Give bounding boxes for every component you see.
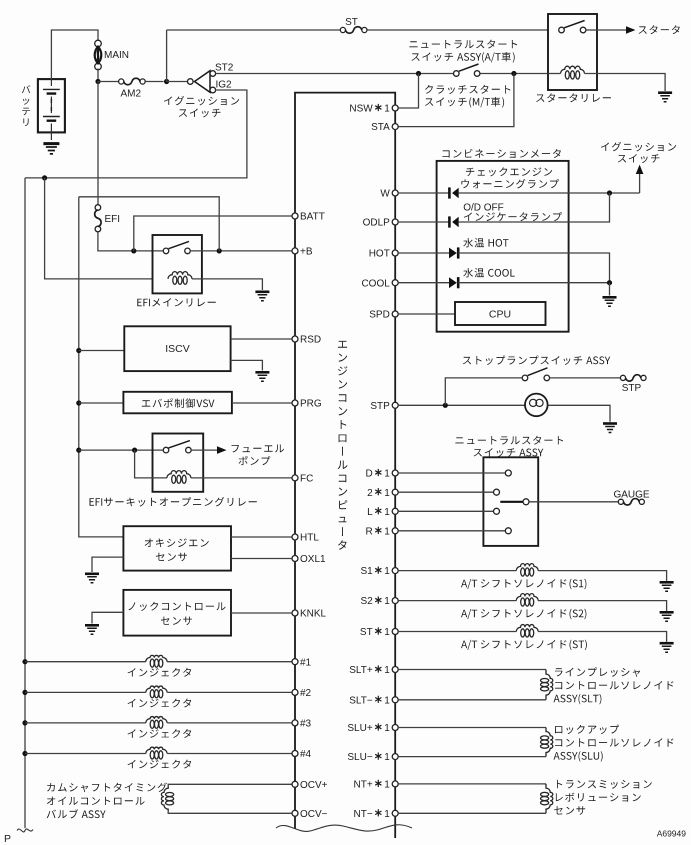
- svg-text:#2: #2: [300, 688, 312, 699]
- wire to opening relay: [79, 449, 164, 451]
- svg-text:HTL: HTL: [300, 533, 319, 544]
- label starter: [639, 25, 680, 34]
- svg-text:BATT: BATT: [300, 212, 325, 223]
- ECU terminal OXL1: [292, 556, 298, 562]
- wire センサ +: [398, 783, 546, 785]
- check engine warning lamp LED: [448, 187, 451, 198]
- svg-text:1: 1: [384, 488, 390, 499]
- fuse STP: [620, 375, 625, 380]
- EFI circuit opening relay switch: [163, 447, 169, 453]
- svg-text:AM2: AM2: [121, 89, 142, 100]
- svg-text:SLU−: SLU−: [347, 752, 372, 763]
- wire NSW branch: [398, 74, 418, 109]
- wire OCV-: [168, 811, 292, 813]
- ECU terminal NT+*1: [392, 781, 398, 787]
- wire O2 to OXL1: [231, 558, 292, 560]
- knock control sensor box: [123, 590, 231, 636]
- EFI main relay switch: [163, 248, 169, 254]
- svg-text:#3: #3: [300, 719, 312, 730]
- distribution rail (switched +B): [79, 197, 124, 537]
- wire 2*1: [398, 491, 493, 493]
- contact 2: [494, 489, 500, 495]
- wire knock sensor to ground: [92, 612, 123, 623]
- label water temp HOT: [463, 238, 508, 247]
- ground (ISCV): [255, 371, 269, 374]
- label EFI circuit opening relay: [90, 497, 257, 507]
- wire R*1: [398, 530, 505, 532]
- ground (battery): [43, 142, 59, 145]
- wire ISCV to RSD: [231, 338, 293, 340]
- wire ISCV to ground: [231, 360, 263, 370]
- junction rail/injector 4: [22, 751, 27, 756]
- junction rail/injector 2: [22, 690, 27, 695]
- wire shift solenoid (S2): [398, 600, 516, 602]
- wire relay switch to +B: [190, 250, 292, 252]
- ECU terminal NSW*1: [392, 105, 398, 111]
- contact R: [505, 528, 511, 534]
- wire battery+ to MAIN link: [51, 30, 98, 79]
- svg-text:STP: STP: [370, 401, 390, 412]
- wire ODLP to O/D OFF LED: [398, 221, 449, 223]
- ECU terminal STP: [392, 402, 398, 408]
- ECU bottom tear: [276, 825, 412, 832]
- label A/T shift solenoid (ST): [461, 640, 587, 650]
- label clutch start switch (M/T): [425, 85, 510, 94]
- wire センサ -: [398, 812, 546, 814]
- wire SPD to CPU: [398, 313, 455, 315]
- svg-text:2: 2: [367, 488, 373, 499]
- svg-text:1: 1: [384, 566, 390, 577]
- svg-text:CPU: CPU: [489, 309, 511, 321]
- label ASSY(SLT): [555, 667, 640, 677]
- wire ST2 line: [216, 73, 454, 75]
- ignition switch feed arrow: [639, 173, 641, 193]
- left rail (IG2 feed to injectors): [24, 178, 26, 828]
- junction rail/ISCV: [76, 348, 81, 353]
- ECU terminal ODLP: [392, 219, 398, 225]
- label battery (vertical): [22, 85, 31, 126]
- label fuel pump: [232, 445, 285, 453]
- wire ST rail (top) to ST fuse: [167, 29, 341, 31]
- label camshaft timing oil control valve ASSY: [47, 783, 167, 793]
- ECU terminal R*1: [392, 528, 398, 534]
- ECU terminal PRG: [292, 400, 298, 406]
- svg-text:ST: ST: [360, 627, 373, 638]
- svg-text:#4: #4: [300, 749, 312, 760]
- ground (shift solenoid (ST)): [660, 642, 674, 645]
- label ignition switch: [164, 96, 239, 106]
- starter relay coil: [548, 73, 561, 75]
- wire O2 sensor to ground: [92, 557, 123, 572]
- wire W LED to ignition riser: [459, 192, 640, 194]
- junction ST2/STA branch: [511, 71, 516, 76]
- wire ASSY(SLU) +: [398, 727, 546, 729]
- junction AM2/ST branch: [164, 79, 169, 84]
- wire HOT LED to COOL junction: [458, 253, 609, 283]
- svg-text:MAIN: MAIN: [104, 50, 129, 61]
- svg-text:OCV−: OCV−: [300, 809, 328, 820]
- svg-text:S1: S1: [360, 566, 373, 577]
- svg-text:COOL: COOL: [361, 278, 390, 289]
- junction rail/opening relay: [76, 448, 81, 453]
- A/T shift solenoid (S1) coil: [516, 564, 538, 571]
- junction rail/injector 1: [22, 659, 27, 664]
- svg-text:SLU+: SLU+: [347, 723, 372, 734]
- wire MAIN rail down to EFI link: [97, 82, 99, 205]
- svg-text:S2: S2: [360, 596, 373, 607]
- wire HOT to HOT LED: [398, 252, 449, 254]
- label injector 1: [128, 668, 192, 677]
- label neutral start switch ASSY (A/T): [409, 40, 517, 49]
- svg-text:NT−: NT−: [354, 809, 373, 820]
- svg-text:EFI: EFI: [105, 214, 121, 225]
- camshaft timing OCV coil: [161, 786, 168, 811]
- water temp COOL LED: [449, 277, 457, 288]
- ECU terminal ST*1: [392, 629, 398, 635]
- EFI circuit opening relay box: [153, 434, 204, 492]
- wire BATT branch: [134, 216, 292, 251]
- wire OCV+: [168, 784, 292, 786]
- injector 3 coil: [146, 717, 167, 723]
- battery: [38, 79, 65, 132]
- svg-text:ST: ST: [345, 17, 358, 28]
- wire solenoid (S1) to ground: [538, 571, 667, 581]
- junction W/ODLP: [607, 190, 612, 195]
- svg-text:1: 1: [384, 627, 390, 638]
- svg-text:PRG: PRG: [300, 399, 322, 410]
- ECU terminal SLU−*1: [392, 754, 398, 760]
- starter relay box: [548, 14, 597, 90]
- neutral start switch box: [483, 457, 538, 546]
- fusible link MAIN: [95, 40, 102, 47]
- ECU terminal #1: [292, 659, 298, 665]
- wire distribution riser: [79, 197, 219, 251]
- svg-text:P: P: [4, 833, 11, 845]
- svg-text:ODLP: ODLP: [363, 218, 391, 229]
- ECU terminal 2*1: [392, 489, 398, 495]
- junction opening relay coil branch: [132, 448, 137, 453]
- wire L*1: [398, 510, 493, 512]
- label knock control sensor: [128, 602, 225, 611]
- label evap control VSV: [142, 398, 215, 408]
- wire switch to STP fuse: [550, 377, 621, 379]
- wire VSV to PRG: [232, 402, 292, 404]
- svg-text:NSW: NSW: [349, 104, 373, 115]
- wire ASSY(SLT) +: [398, 669, 546, 671]
- svg-text:1: 1: [384, 469, 390, 480]
- wire EFI main relay coil to ground: [192, 279, 262, 290]
- wire ASSY(SLT) -: [398, 699, 546, 701]
- label starter relay: [536, 93, 611, 102]
- ECU terminal SLT−*1: [392, 697, 398, 703]
- label water temp COOL: [463, 268, 514, 277]
- junction rail/injector 3: [22, 720, 27, 725]
- fusible link EFI: [95, 205, 101, 211]
- junction HOT/COOL ground: [607, 280, 612, 285]
- wire starter output arrow: [597, 29, 629, 31]
- A/T shift solenoid (S2) coil: [516, 594, 538, 601]
- ECU terminal L*1: [392, 508, 398, 514]
- wire common to GAUGE fuse: [529, 501, 618, 503]
- label センサ: [557, 780, 652, 789]
- wire to ISCV: [79, 350, 125, 352]
- water temp HOT LED: [449, 248, 457, 259]
- svg-text:#1: #1: [300, 657, 312, 668]
- ignition switch: [188, 79, 194, 85]
- EFI main relay coil: [168, 272, 192, 279]
- wire AM2 fuse to junction: [145, 81, 163, 83]
- ECU terminal OCV+: [292, 781, 298, 787]
- junction IG2/relay coil feed: [42, 175, 47, 180]
- svg-text:SPD: SPD: [369, 310, 390, 321]
- svg-text:O/D OFF: O/D OFF: [463, 203, 504, 214]
- injector 2 coil: [146, 686, 167, 692]
- wire injector 1 to #1: [167, 661, 292, 663]
- svg-text:RSD: RSD: [300, 335, 321, 346]
- junction ST2/NSW branch: [416, 71, 421, 76]
- junction STP/switch branch: [443, 403, 448, 408]
- svg-text:R: R: [365, 526, 372, 537]
- ECU terminal D*1: [392, 470, 398, 476]
- svg-text:HOT: HOT: [369, 249, 390, 260]
- ECU terminal BATT: [292, 213, 298, 219]
- wire MAIN to AM2 rail: [97, 69, 99, 82]
- svg-text:1: 1: [384, 695, 390, 706]
- label stop lamp switch ASSY: [463, 356, 610, 365]
- ECU terminal S1*1: [392, 568, 398, 574]
- ECU terminal W: [392, 190, 398, 196]
- ECU (engine control computer) outline: [295, 93, 395, 838]
- clutch start switch (M/T): [454, 71, 460, 77]
- label injector 2: [128, 699, 192, 708]
- svg-text:GAUGE: GAUGE: [613, 489, 649, 500]
- ECU terminal KNKL: [292, 610, 298, 616]
- junction +B/BATT branch: [131, 248, 136, 253]
- label check engine warning lamp: [466, 167, 552, 176]
- svg-text:OCV+: OCV+: [300, 780, 328, 791]
- wire to ignition switch: [167, 81, 188, 83]
- svg-text:STP: STP: [622, 383, 642, 394]
- label A/T shift solenoid (S1): [461, 579, 586, 589]
- wire COOL to COOL LED: [398, 282, 449, 284]
- wire solenoid (ST) to ground: [538, 632, 667, 642]
- svg-text:1: 1: [384, 752, 390, 763]
- CPU box: [455, 302, 546, 325]
- ground (knock sensor): [85, 624, 99, 627]
- wire to injector 3: [25, 722, 146, 724]
- wire injector 4 to #4: [167, 753, 292, 755]
- contact D: [505, 470, 511, 476]
- wire to VSV: [79, 402, 124, 404]
- injector 1 coil: [146, 655, 167, 661]
- ECU terminal STA: [392, 124, 398, 130]
- solenoid ASSY(SLT) coil: [546, 670, 553, 700]
- ECU terminal OCV−: [292, 810, 298, 816]
- wire stop lamp to ground: [547, 405, 610, 421]
- ground (shift solenoid (S2)): [660, 611, 674, 614]
- ECU terminal FC: [292, 475, 298, 481]
- ECU terminal HTL: [292, 534, 298, 540]
- wire to AM2 fuse: [98, 81, 118, 83]
- injector 4 coil: [146, 747, 167, 753]
- svg-text:STA: STA: [371, 122, 390, 133]
- ECU terminal NT−*1: [392, 810, 398, 816]
- label A/T shift solenoid (S2): [461, 609, 586, 619]
- EFI main relay box: [153, 235, 202, 293]
- svg-text:ISCV: ISCV: [165, 343, 190, 355]
- svg-text:NT+: NT+: [354, 780, 373, 791]
- wire junction up to ST rail: [166, 30, 168, 82]
- selector common contact: [500, 501, 523, 503]
- A/T shift solenoid (ST) coil: [516, 625, 538, 632]
- svg-text:1: 1: [384, 104, 390, 115]
- svg-text:1: 1: [384, 723, 390, 734]
- svg-text:SLT+: SLT+: [349, 665, 373, 676]
- evap control VSV box: [123, 392, 231, 414]
- label engine control computer (vertical): [338, 341, 348, 550]
- stop lamp bulb: [525, 394, 548, 417]
- ISCV box: [124, 326, 230, 371]
- label oxygen sensor: [145, 538, 209, 547]
- svg-text:1: 1: [384, 665, 390, 676]
- svg-text:1: 1: [384, 780, 390, 791]
- wire STP to junction: [398, 404, 525, 406]
- junction +B/distribution branch: [217, 248, 222, 253]
- wire coil branch down: [135, 450, 167, 478]
- wire knock to KNKL: [231, 612, 292, 614]
- EFI circuit opening relay coil: [167, 471, 191, 478]
- svg-text:L: L: [367, 507, 373, 518]
- fuse GAUGE: [618, 499, 623, 504]
- wire IG2 to left rail: [25, 90, 247, 178]
- wire stop lamp switch branch: [445, 378, 522, 405]
- wire ASSY(SLU) -: [398, 756, 546, 758]
- fuse ST: [340, 27, 345, 32]
- svg-text:OXL1: OXL1: [300, 554, 326, 565]
- wire O2 to HTL: [231, 536, 292, 538]
- ground (shift solenoid (S1)): [660, 581, 674, 584]
- wire shift solenoid (ST): [398, 631, 516, 633]
- svg-text:1: 1: [384, 526, 390, 537]
- ground (starter relay): [658, 91, 672, 94]
- svg-text:1: 1: [384, 507, 390, 518]
- wire D*1: [398, 472, 505, 474]
- ECU terminal SLU+*1: [392, 725, 398, 731]
- wire W to warning lamp LED: [398, 192, 449, 194]
- fuse AM2: [119, 79, 124, 84]
- wire to injector 2: [25, 691, 146, 693]
- starter relay switch: [559, 27, 565, 33]
- svg-text:SLT−: SLT−: [349, 695, 373, 706]
- svg-text:1: 1: [384, 596, 390, 607]
- svg-text:+B: +B: [300, 247, 313, 258]
- solenoid センサ coil: [546, 784, 553, 813]
- left rail page tear: [17, 829, 33, 832]
- ECU terminal +B: [292, 248, 298, 254]
- ground (EFI main relay): [255, 290, 269, 293]
- label combination meter: [443, 149, 561, 158]
- ground (meter lamps): [603, 296, 617, 299]
- label injector 3: [128, 729, 192, 738]
- svg-text:1: 1: [384, 809, 390, 820]
- ECU terminal #2: [292, 689, 298, 695]
- wire ST fuse to starter relay: [367, 29, 548, 31]
- label EFI main relay: [137, 298, 216, 307]
- ECU terminal #4: [292, 751, 298, 757]
- ECU terminal SLT+*1: [392, 667, 398, 673]
- solenoid ASSY(SLU) coil: [546, 728, 553, 757]
- wire starter relay coil to ground: [585, 74, 666, 92]
- wire solenoid (S2) to ground: [538, 601, 667, 611]
- label ASSY(SLU): [555, 725, 619, 734]
- wire shift solenoid (S1): [398, 570, 516, 572]
- ground (stop lamp): [603, 422, 617, 425]
- svg-text:A69949: A69949: [657, 829, 687, 839]
- wire injector 3 to #3: [167, 722, 292, 724]
- contact L: [494, 508, 500, 514]
- wire EFI link to +B line: [98, 232, 163, 251]
- wire O/D LED to junction riser: [459, 193, 610, 222]
- svg-text:D: D: [365, 469, 372, 480]
- svg-text:KNKL: KNKL: [300, 609, 327, 620]
- label injector 4: [128, 760, 192, 769]
- O/D OFF indicator LED: [448, 216, 451, 227]
- junction MAIN/AM2: [95, 79, 100, 84]
- ECU terminal S2*1: [392, 598, 398, 604]
- wire relay coil feed: [45, 178, 153, 279]
- wire COOL LED to ground: [458, 282, 609, 284]
- combination meter box: [437, 161, 569, 332]
- svg-text:W: W: [380, 189, 390, 200]
- wire switch to fuel pump arrow: [191, 449, 217, 451]
- wire opening relay coil to FC: [191, 477, 292, 479]
- ECU terminal #3: [292, 720, 298, 726]
- stop lamp switch: [522, 375, 528, 381]
- wire to injector 4: [25, 753, 146, 755]
- oxygen sensor box: [123, 526, 231, 570]
- ECU terminal RSD: [292, 336, 298, 342]
- label ignition switch (arrow): [601, 142, 676, 152]
- svg-text:FC: FC: [300, 474, 313, 485]
- wire injector 2 to #2: [167, 691, 292, 693]
- ECU terminal COOL: [392, 280, 398, 286]
- ECU terminal SPD: [392, 311, 398, 317]
- wire STA branch: [398, 74, 514, 127]
- ECU terminal HOT: [392, 250, 398, 256]
- svg-text:IG2: IG2: [216, 80, 233, 91]
- wire to injector 1: [25, 661, 146, 663]
- junction rail/VSV: [76, 400, 81, 405]
- svg-text:ST2: ST2: [215, 63, 234, 74]
- ground (O2 sensor): [85, 572, 99, 575]
- label neutral start switch ASSY: [455, 436, 563, 445]
